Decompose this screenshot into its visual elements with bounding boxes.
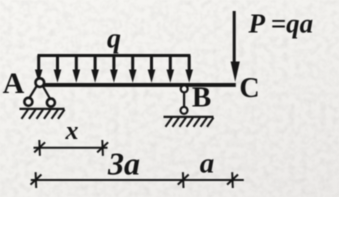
svg-text:A: A xyxy=(3,67,25,100)
svg-text:P =qa: P =qa xyxy=(248,8,314,38)
svg-text:3a: 3a xyxy=(107,146,140,182)
svg-text:a: a xyxy=(200,147,215,179)
svg-text:B: B xyxy=(192,81,211,113)
svg-text:q: q xyxy=(107,24,121,55)
svg-text:C: C xyxy=(239,73,259,104)
svg-text:x: x xyxy=(65,116,79,145)
